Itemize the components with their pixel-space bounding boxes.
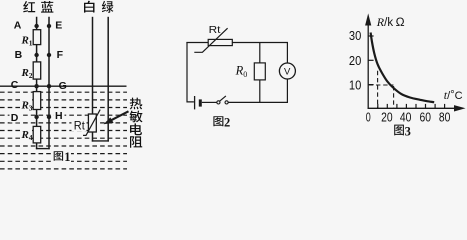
soil dashed line row 8 (0, 145, 127, 147)
svg-text:R: R (21, 100, 29, 112)
svg-text:80: 80 (439, 110, 451, 125)
x axis arrowhead (454, 105, 466, 111)
green wire (107, 17, 109, 142)
soil dashed line row 2 (0, 99, 127, 101)
soil dashed line row 6 (0, 130, 127, 132)
figure 1: four-wire soil temperature probe (0, 1, 143, 169)
soil dashed line row 10 (0, 160, 127, 162)
svg-text:R: R (21, 67, 29, 79)
svg-text:R: R (235, 64, 244, 78)
x tick 50 (415, 104, 417, 108)
wire: right edge bottom (from voltmeter) (286, 79, 288, 103)
soil dashed line row 3 (0, 107, 127, 109)
wire: bottom connection red-blue (36, 148, 50, 150)
svg-text:E: E (55, 20, 62, 32)
svg-text:1: 1 (29, 39, 33, 48)
figure 2: measuring circuit with Rt, R0, voltmeter, battery, switch (186, 24, 295, 129)
dashed line vertical at t=10 (377, 71, 379, 109)
x tick 10 (377, 104, 379, 108)
junction dot node D (34, 115, 38, 119)
soil dashed line row 7 (0, 137, 127, 139)
battery long plate (194, 96, 196, 109)
svg-text:C: C (11, 79, 19, 91)
label 敏 (thermistor text) (130, 111, 143, 123)
switch contact circle left (217, 101, 220, 104)
soil dashed line row 11 (0, 168, 127, 170)
junction dot node C (34, 84, 38, 88)
junction dot node E (47, 24, 51, 28)
caption 图 (fig1) (54, 151, 63, 161)
wire: left edge (187, 42, 194, 102)
battery short thick plate (199, 99, 202, 106)
white clearing behind label R4 (21, 127, 33, 141)
soil dashed line row 4 (0, 114, 127, 116)
wire: bottom connection white-green (92, 140, 109, 142)
white clearing behind caption 图1 (53, 150, 72, 163)
x tick 70 (434, 104, 436, 108)
svg-text:Rt: Rt (209, 24, 221, 36)
x tick 40 (405, 104, 407, 108)
resistor R1 body (33, 30, 41, 45)
svg-text:0: 0 (243, 70, 247, 79)
wire color label 白 (white) (84, 1, 94, 13)
y tick 10 (368, 84, 373, 86)
resistor R2 body (33, 62, 41, 79)
y tick 30 (368, 35, 373, 37)
wire: R0 branch vertical (259, 43, 261, 103)
svg-text:2: 2 (29, 71, 33, 80)
svg-text:G: G (59, 80, 67, 92)
junction dot node B (34, 53, 38, 57)
wire color label 蓝 (blue) (41, 1, 53, 13)
svg-text:60: 60 (420, 110, 432, 125)
wire color label 绿 (green) (102, 1, 114, 13)
resistor R3 body (33, 92, 41, 110)
y tick 20 (368, 59, 373, 61)
svg-text:10: 10 (349, 77, 361, 92)
x tick 30 (396, 104, 398, 108)
thermistor Rt diagonal stroke (fig1) (83, 110, 100, 136)
y axis (367, 22, 369, 109)
junction dot node H (47, 115, 51, 119)
white wire (through Rt) (92, 17, 94, 142)
svg-text:V: V (284, 67, 291, 78)
label 阻 (thermistor text) (130, 136, 142, 148)
wire: right edge top (to voltmeter) (286, 42, 288, 63)
svg-text:A: A (14, 20, 22, 32)
thermistor Rt body (fig2) (208, 39, 232, 45)
wire: top edge right segment (232, 42, 288, 44)
junction dot node F (47, 53, 51, 57)
white clearing behind label R3 (21, 99, 33, 112)
wire: top edge left segment (186, 42, 208, 44)
caption 图 (fig3) (394, 125, 404, 136)
white clearing behind label H (54, 110, 65, 121)
svg-text:H: H (55, 110, 63, 122)
x axis (368, 107, 456, 109)
resistor R4 body (33, 126, 41, 142)
svg-text:2: 2 (224, 115, 230, 129)
junction dot node G (47, 84, 51, 88)
x tick 60 (425, 104, 427, 108)
blue wire (48, 17, 50, 150)
y axis arrowhead (365, 13, 371, 25)
svg-text:t/°C: t/°C (444, 88, 463, 102)
soil dashed line row 5 (0, 122, 127, 124)
dashed line vertical at t=27 (393, 86, 395, 108)
soil dashed line row 1 (0, 91, 127, 93)
junction dot node A (34, 24, 38, 28)
red wire (left, through R1-R4) (36, 17, 38, 150)
svg-text:0: 0 (366, 110, 371, 125)
svg-text:30: 30 (349, 28, 361, 43)
switch contact circle right (225, 101, 228, 104)
label 热 (thermistor text) (130, 98, 143, 110)
svg-text:F: F (57, 49, 64, 61)
soil dashed line row 9 (0, 153, 127, 155)
svg-text:1: 1 (64, 150, 70, 164)
svg-text:D: D (11, 112, 19, 124)
resistor R0 body (254, 63, 265, 80)
svg-text:B: B (15, 49, 23, 61)
thermistor Rt body (fig1) (88, 114, 96, 132)
arrow pointing to thermistor Rt (104, 111, 129, 124)
svg-text:R/kΩ: R/kΩ (376, 15, 405, 29)
svg-text:3: 3 (29, 104, 33, 113)
switch lever (220, 96, 226, 101)
svg-text:Rt: Rt (74, 120, 86, 132)
svg-text:20: 20 (349, 53, 361, 68)
voltmeter V circle (279, 63, 295, 79)
white clearing behind label Rt (72, 118, 87, 132)
wire: battery to switch (202, 101, 217, 103)
x tick 20 (386, 104, 388, 108)
soil surface line (node C-G level) (0, 85, 127, 87)
thermistor Rt diagonal stroke (fig2) (194, 28, 227, 52)
svg-text:R: R (21, 129, 29, 141)
dashed line horizontal at R=10 (369, 84, 394, 86)
svg-text:20: 20 (381, 110, 393, 125)
svg-text:4: 4 (29, 133, 33, 142)
figure 3: R vs t characteristic graph (349, 13, 466, 138)
svg-text:R: R (21, 35, 29, 47)
caption 图 (fig2) (213, 116, 223, 126)
svg-text:3: 3 (405, 125, 411, 139)
white clearing behind label D (10, 112, 21, 123)
label 电 (thermistor text) (130, 123, 142, 135)
wire color label 红 (red) (23, 1, 35, 12)
x tick 80 (444, 104, 446, 108)
wire: switch to right edge (228, 101, 288, 103)
svg-text:40: 40 (400, 110, 412, 125)
R-t curve (371, 33, 435, 103)
